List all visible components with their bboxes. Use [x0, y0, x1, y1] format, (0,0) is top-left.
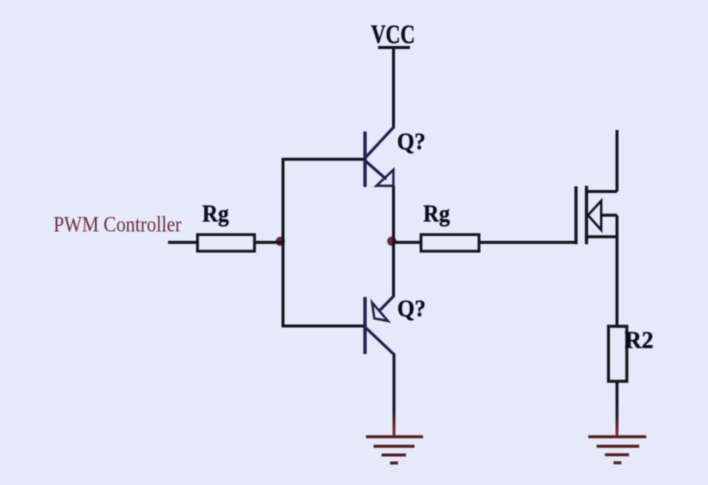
transistor Q2 emitter arrow [372, 303, 388, 321]
transistor Q1 (NPN) collector diagonal [366, 127, 394, 158]
transistor Q2 collector diagonal [366, 328, 395, 355]
svg-text:PWM Controller: PWM Controller [54, 212, 183, 237]
wire node B to Rg2 [394, 241, 422, 244]
junction node B [387, 237, 396, 246]
wire Q1 emitter down to gate node [392, 186, 395, 242]
resistor Rg2 [421, 235, 479, 252]
transistor Q1 emitter arrow [376, 170, 393, 186]
wire gate node down to Q2 emitter [392, 242, 395, 297]
wire R2 to ground [616, 381, 619, 437]
wire Q2 base to left branch [283, 325, 365, 328]
svg-text:Rg: Rg [423, 201, 450, 227]
resistor Rg1 [198, 235, 255, 252]
transistor Q2 base bar [363, 297, 366, 354]
svg-text:VCC: VCC [371, 20, 415, 49]
power bar VCC [378, 46, 410, 49]
ground GND1 [366, 437, 423, 463]
svg-text:Rg: Rg [202, 201, 229, 227]
wire Q1 base to left branch [283, 158, 365, 161]
junction node A [276, 237, 285, 246]
svg-text:R2: R2 [625, 328, 654, 354]
transistor Q1 base bar [363, 132, 366, 188]
wire Rg1 to node A [255, 241, 284, 244]
wire PWM stub [168, 241, 198, 244]
mosfet Q3 bulk arrow [588, 201, 601, 230]
svg-text:Q?: Q? [397, 297, 426, 323]
wire left branch vertical [282, 158, 285, 327]
wire Rg2 to gate [479, 241, 576, 244]
wire drain up [616, 130, 619, 192]
ground GND2 [588, 437, 646, 463]
mosfet Q3 middle tap [601, 214, 617, 217]
wire Q2 collector to ground [393, 354, 396, 438]
mosfet Q3 gate bar [574, 186, 577, 244]
wire VCC to Q1 collector [392, 48, 395, 129]
wire source down to R2 [616, 215, 619, 327]
mosfet Q3 drain tap [587, 190, 618, 193]
transistor Q1 emitter diagonal [366, 161, 387, 179]
mosfet Q3 channel bar [585, 186, 588, 244]
transistor Q2 (PNP) emitter diagonal [379, 296, 394, 311]
mosfet Q3 source tap [587, 235, 618, 238]
resistor R2 [609, 326, 627, 381]
svg-text:Q?: Q? [397, 130, 426, 156]
